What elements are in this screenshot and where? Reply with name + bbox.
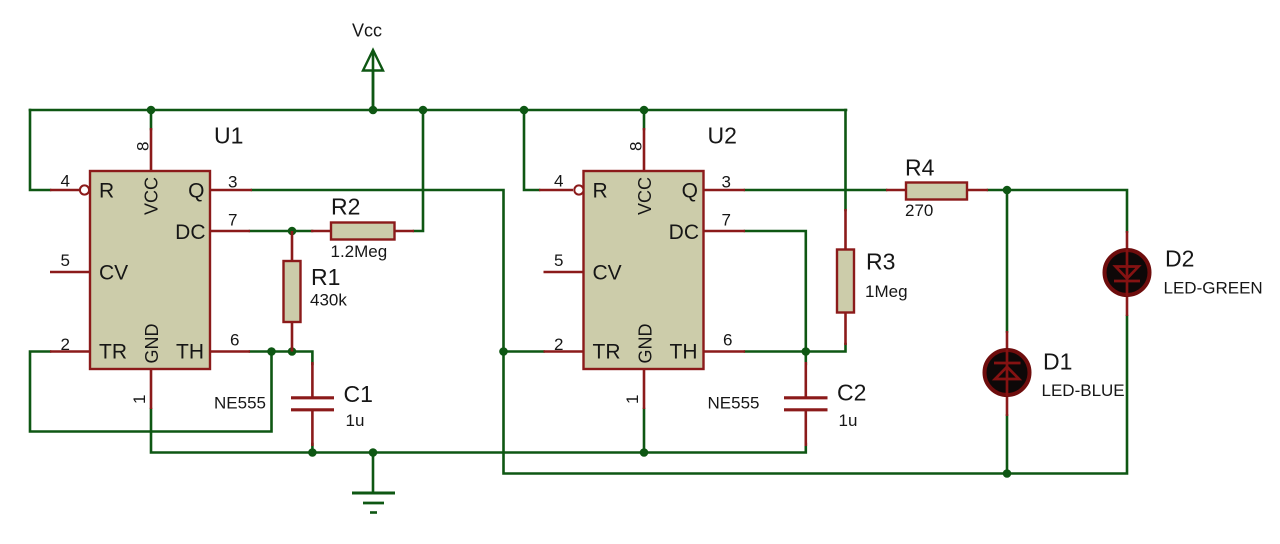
- node U2 pin4 rail: [520, 106, 529, 115]
- pin 7 DC U2: [704, 230, 746, 233]
- pin 1 GND U2: [643, 369, 646, 409]
- node U2 pin8 rail: [640, 106, 649, 115]
- svg-text:2: 2: [61, 335, 70, 354]
- svg-text:1Meg: 1Meg: [865, 282, 908, 301]
- node R2 rail: [419, 106, 428, 115]
- svg-text:CV: CV: [593, 262, 622, 285]
- pin 8 VCC U2: [643, 128, 646, 171]
- wire vcc stem: [372, 52, 375, 110]
- U2 pins (red stubs): [539, 128, 745, 409]
- svg-text:DC: DC: [175, 221, 205, 244]
- svg-text:NE555: NE555: [708, 394, 760, 413]
- wire U2 TH to R3: [745, 344, 846, 352]
- svg-text:VCC: VCC: [142, 177, 162, 215]
- svg-text:R: R: [99, 180, 114, 203]
- pin 2 TR U1: [50, 350, 90, 353]
- svg-text:4: 4: [61, 172, 70, 191]
- node R1 top: [288, 227, 297, 236]
- pin 4 R U1: [50, 189, 80, 192]
- wire D1 bottom: [1006, 416, 1009, 474]
- svg-text:5: 5: [554, 251, 563, 270]
- wire U2 Q to R4: [745, 189, 886, 192]
- U1 pins (red stubs): [50, 128, 252, 409]
- wire C1 bottom: [311, 444, 314, 453]
- node U2 TH / C2: [802, 347, 811, 356]
- pin 6 TH U1: [210, 350, 250, 353]
- svg-text:1u: 1u: [346, 411, 365, 430]
- U2 reset bubble: [574, 185, 583, 194]
- wire R3 top: [844, 110, 847, 210]
- svg-text:C2: C2: [837, 380, 866, 406]
- svg-text:8: 8: [627, 142, 646, 151]
- svg-text:5: 5: [61, 251, 70, 270]
- node U1 TR loop: [267, 347, 276, 356]
- U1 reset bubble: [80, 185, 89, 194]
- svg-text:GND: GND: [636, 324, 656, 364]
- wire gnd bus: [151, 409, 806, 453]
- svg-text:U1: U1: [214, 123, 243, 149]
- node R1 bottom: [288, 347, 297, 356]
- svg-text:2: 2: [554, 335, 563, 354]
- svg-text:6: 6: [723, 331, 732, 350]
- wire U1 Q to U2 TR: [252, 190, 544, 352]
- U1 pin numbers: [61, 142, 240, 404]
- diode D2 LED-GREEN: [1105, 231, 1150, 316]
- ground symbol: [352, 493, 395, 513]
- resistor R2: [311, 223, 414, 240]
- svg-text:DC: DC: [669, 221, 699, 244]
- svg-text:NE555: NE555: [214, 394, 266, 413]
- power Vcc symbol: [363, 50, 383, 110]
- svg-text:7: 7: [228, 211, 237, 230]
- svg-text:8: 8: [134, 142, 153, 151]
- wire U2 pin4: [524, 110, 539, 190]
- wire D1 top lead: [1006, 190, 1009, 331]
- svg-text:R: R: [593, 180, 608, 203]
- wire U1 TR loop: [30, 352, 272, 432]
- node D1 bottom: [1003, 469, 1012, 478]
- svg-text:TR: TR: [99, 341, 127, 364]
- pin 3 Q U1: [210, 189, 252, 192]
- svg-text:270: 270: [905, 201, 933, 220]
- wire R2 right to rail: [414, 110, 423, 231]
- wire R4 to LEDs top: [988, 190, 1127, 232]
- svg-text:TR: TR: [593, 341, 621, 364]
- node U2 pin1 gnd: [640, 448, 649, 457]
- pin 1 GND U1: [150, 369, 153, 409]
- node ground: [369, 448, 378, 457]
- svg-text:Q: Q: [682, 180, 698, 203]
- wire U2 pin1: [643, 409, 646, 453]
- U1 pin names: [99, 177, 206, 364]
- resistor R3: [837, 209, 854, 345]
- svg-text:1: 1: [130, 395, 149, 404]
- IC U1 NE555 body: [90, 171, 210, 369]
- svg-text:1.2Meg: 1.2Meg: [331, 242, 388, 261]
- node U1 pin8 rail: [147, 106, 156, 115]
- pin 2 TR U2: [544, 350, 584, 353]
- pin 7 DC U1: [210, 230, 250, 233]
- svg-text:VCC: VCC: [635, 177, 655, 215]
- svg-text:GND: GND: [142, 324, 162, 364]
- node D1 top: [1003, 186, 1012, 195]
- svg-text:7: 7: [722, 211, 731, 230]
- svg-text:LED-BLUE: LED-BLUE: [1042, 381, 1125, 400]
- svg-text:R4: R4: [905, 155, 935, 181]
- svg-text:LED-GREEN: LED-GREEN: [1164, 279, 1263, 298]
- svg-text:U2: U2: [708, 123, 737, 149]
- svg-text:CV: CV: [99, 262, 128, 285]
- svg-text:1u: 1u: [839, 411, 858, 430]
- wire U2 pin8: [643, 110, 646, 129]
- wire left rail to pin4 U1: [30, 110, 50, 190]
- svg-text:R1: R1: [311, 264, 340, 290]
- svg-text:Vcc: Vcc: [352, 21, 382, 41]
- svg-text:430k: 430k: [310, 291, 347, 310]
- resistor R4: [886, 183, 988, 200]
- U2 pin numbers: [554, 142, 732, 404]
- resistor R1: [284, 231, 301, 352]
- svg-text:3: 3: [228, 173, 237, 192]
- IC U2 NE555 body: [584, 171, 704, 369]
- svg-text:1: 1: [623, 395, 642, 404]
- pin 5 CV U2: [544, 271, 584, 274]
- capacitor C2: [784, 362, 828, 446]
- wire LED bottom bus: [504, 316, 1128, 474]
- svg-text:C1: C1: [344, 381, 373, 407]
- pin 8 VCC U1: [150, 128, 153, 171]
- pin 5 CV U1: [50, 271, 90, 274]
- pin 3 Q U2: [704, 189, 746, 192]
- svg-text:D2: D2: [1165, 246, 1194, 272]
- wire U1 DC to R2/R1 node: [250, 230, 312, 233]
- pin 6 TH U2: [704, 350, 746, 353]
- capacitor C1: [291, 362, 334, 446]
- wire U1 pin8: [150, 110, 153, 129]
- wire top rail: [30, 109, 846, 112]
- svg-text:Q: Q: [188, 180, 204, 203]
- svg-text:D1: D1: [1043, 349, 1072, 375]
- svg-text:3: 3: [722, 173, 731, 192]
- node C1 gnd: [308, 448, 317, 457]
- wire ground stem: [372, 453, 375, 494]
- node U2 TR / U1 Q: [499, 347, 508, 356]
- svg-text:R2: R2: [331, 194, 360, 220]
- wire U1 TH row: [250, 352, 312, 365]
- svg-text:TH: TH: [176, 341, 204, 364]
- svg-text:TH: TH: [670, 341, 698, 364]
- svg-text:4: 4: [554, 172, 563, 191]
- svg-text:6: 6: [230, 331, 239, 350]
- node Vcc rail: [369, 106, 378, 115]
- wire U2 DC down: [745, 231, 806, 364]
- svg-text:R3: R3: [866, 249, 895, 275]
- diode D1 LED-BLUE: [985, 331, 1030, 416]
- pin 4 R U2: [539, 189, 573, 192]
- U2 pin names: [593, 177, 700, 364]
